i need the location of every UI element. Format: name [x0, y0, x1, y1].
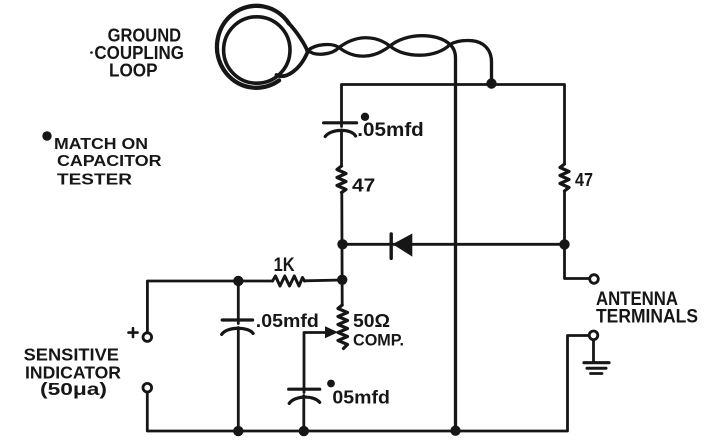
svg-text:05mfd: 05mfd	[332, 386, 390, 407]
svg-text:.05mfd: .05mfd	[256, 311, 319, 331]
svg-text:TESTER: TESTER	[57, 172, 133, 189]
svg-text:SENSITIVE: SENSITIVE	[24, 345, 119, 365]
svg-text:47: 47	[575, 170, 593, 190]
svg-text:(50μa): (50μa)	[40, 379, 107, 399]
svg-text:MATCH ON: MATCH ON	[54, 136, 148, 153]
svg-text:47: 47	[352, 176, 375, 196]
svg-text:COMP.: COMP.	[353, 331, 404, 349]
svg-text:TERMINALS: TERMINALS	[596, 307, 698, 328]
svg-text:LOOP: LOOP	[109, 61, 158, 81]
svg-text:CAPACITOR: CAPACITOR	[57, 153, 162, 170]
svg-text:50Ω: 50Ω	[353, 311, 390, 331]
svg-text:.05mfd: .05mfd	[357, 120, 424, 141]
svg-text:1K: 1K	[274, 254, 295, 276]
